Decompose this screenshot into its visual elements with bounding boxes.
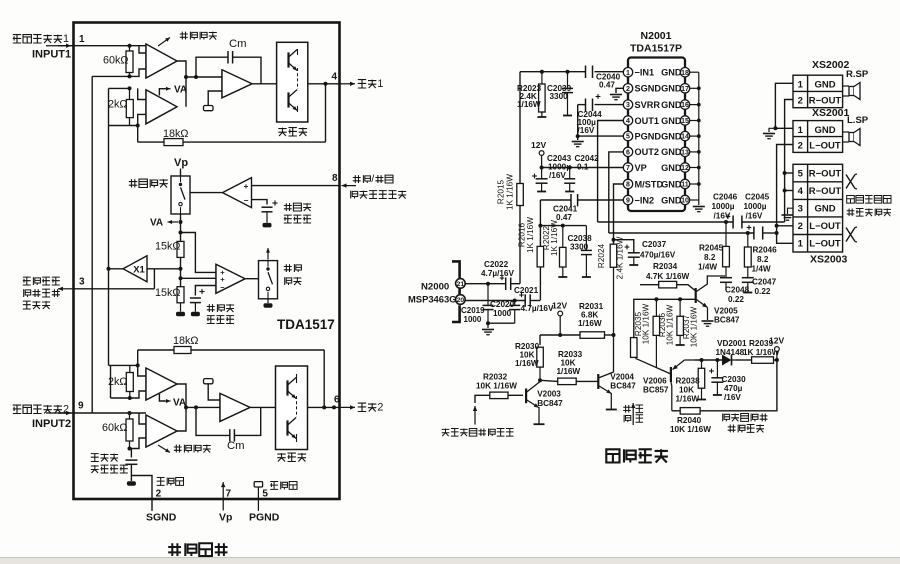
svg-text:X1: X1 [133,264,145,275]
svg-text:10K 1/16W: 10K 1/16W [666,304,675,345]
svg-text:12V: 12V [769,336,784,346]
capacitor C2020 [514,301,516,306]
svg-text:3: 3 [798,204,803,215]
wire pin9 -IN2 line [578,199,624,201]
power stage box ch2 功放级 [276,366,308,450]
label 反相输入端2 [13,405,21,413]
resistor R2032 [508,394,523,396]
label 静音控制 vertical [623,405,631,413]
pin 10 GND [680,195,689,204]
resistor R2038 [701,360,703,368]
wire XS2001 pin1 ground [775,127,793,129]
power transistor Q1 ch2 [286,380,288,395]
pin 8 external arrow [342,185,357,187]
wire pin6 OUT2 down to L-OUT line [609,152,624,233]
svg-text:R−OUT: R−OUT [809,169,842,180]
svg-text:GND: GND [661,116,682,126]
terminal 15k lower [180,303,182,312]
resistor 2k ch1 [129,88,131,125]
V2006 collector wire [670,382,673,411]
wire Vp to standby switch [180,169,182,177]
ground GND bus [693,206,705,208]
svg-text:GND: GND [661,100,682,110]
title 内部框图 [168,543,181,556]
IC N2000 partial body [452,261,460,278]
svg-text:3: 3 [626,102,630,109]
svg-text:10: 10 [681,198,689,205]
resistor R2034 [640,284,659,286]
svg-text:6: 6 [334,395,340,406]
capacitor C2039 [567,72,569,88]
svg-text:3300: 3300 [570,243,589,252]
svg-text:+: + [244,182,249,191]
node V2003 collector [538,378,542,382]
svg-text:VA: VA [174,85,187,96]
wire XS2003 pin3 ground [788,208,794,214]
svg-text:R2015: R2015 [497,179,506,204]
svg-text:1000: 1000 [493,309,512,318]
ground V2003 [534,423,545,425]
label 外接扬声器 [847,209,855,217]
resistor R2035 [631,338,638,358]
svg-text:9: 9 [626,198,630,205]
svg-text:−: − [244,196,249,205]
svg-text:GND: GND [661,68,682,78]
svg-text:V2006: V2006 [643,377,667,386]
svg-text:15kΩ: 15kΩ [155,240,180,252]
mute switch arrow ch1 [158,38,170,47]
wire bias bus horizontal [540,225,586,227]
svg-text:R2045: R2045 [699,244,724,253]
node C2030 top [715,358,719,362]
capacitor C2037 [614,240,634,253]
wire XS2003 pin4 stub [785,190,793,192]
wire R2015 input chain vertical [519,72,521,184]
svg-text:−: − [220,283,225,292]
capacitor C2022 [505,278,507,291]
resistor R2016 [537,246,544,267]
svg-text:60kΩ: 60kΩ [103,54,128,66]
label 待机开关 [129,179,137,187]
svg-text:N2000: N2000 [421,282,449,293]
op-amp A1 ch2 (VA) [146,368,177,400]
svg-text:18kΩ: 18kΩ [173,335,198,347]
capacitor Cm ch2 [196,407,230,435]
mute switch box 静音开关 [259,261,278,299]
svg-text:R2046: R2046 [753,246,778,255]
svg-text:R2032: R2032 [483,373,508,382]
node pin4 feedback tap [324,82,328,86]
op-amp A2 ch2 (mute) [146,415,177,447]
pin 12 GND [680,163,689,172]
wire opamp1 upper input [139,46,146,53]
remote mute input arrow [475,395,490,403]
svg-text:7: 7 [226,489,232,500]
svg-text:1: 1 [79,34,85,45]
wire SVRR cap to ground [577,105,579,140]
svg-text:7: 7 [626,165,630,172]
pin 2 SGND [623,84,632,93]
transistor V2003 [525,389,527,404]
pin 9 wire [46,412,71,414]
svg-text:−IN2: −IN2 [635,195,655,205]
pin 14 GND [680,131,689,140]
mute switch arrow ch2 [158,445,170,453]
resistor R2030 [537,347,544,367]
svg-text:1: 1 [626,70,630,77]
svg-text:INPUT2: INPUT2 [32,418,71,430]
svg-text:R2038: R2038 [676,377,701,386]
compensation terminal ch2 [204,379,214,384]
svg-text:1K 1/16W: 1K 1/16W [550,220,559,256]
wire driver to power stage ch2 [250,406,276,408]
svg-text:XS2003: XS2003 [810,254,848,266]
label 静音/待机 [353,175,361,183]
svg-text:C2021: C2021 [514,286,539,295]
svg-text:GND: GND [814,204,835,215]
svg-text:2: 2 [63,403,69,415]
svg-text:3: 3 [79,277,85,288]
terminal mute ref [191,312,200,317]
svg-text:10K 1/16W: 10K 1/16W [690,306,699,347]
svg-text:1: 1 [798,80,804,91]
svg-text:L−OUT: L−OUT [809,141,841,152]
svg-text:5: 5 [626,134,630,141]
svg-text:4: 4 [798,186,804,197]
wire pin1 input line [520,71,586,73]
VA arrow ch1 [159,89,165,96]
wire driver out to power stage ch1 [252,83,277,85]
op-amp A2 ch1 (VA) [146,90,177,124]
resistor R2045 [725,222,727,246]
svg-text:SGND: SGND [146,512,177,524]
standby switch box 待机开关 [171,176,190,214]
label 耳机插板及 [847,196,855,204]
capacitor C2046 [732,216,734,229]
node R2023 [540,70,544,74]
svg-text:L−OUT: L−OUT [809,221,841,232]
svg-text:5: 5 [262,489,268,500]
svg-text:BC847: BC847 [537,399,563,408]
svg-text:V2004: V2004 [610,373,634,382]
svg-text:1/4W: 1/4W [752,265,771,274]
node 12V rail [558,333,562,337]
pin 17 GND [680,84,689,93]
label 输入端参考电压 [91,454,99,462]
wire input node to 60k [128,44,132,48]
svg-text:BC857: BC857 [643,386,669,395]
svg-text:R2034: R2034 [653,262,678,271]
svg-text:1: 1 [63,33,69,45]
svg-text:BC847: BC847 [714,316,740,325]
svg-text:TDA1517P: TDA1517P [630,43,682,55]
ground V2004 [606,409,617,411]
svg-text:VP: VP [635,163,647,173]
svg-text:C2022: C2022 [484,260,509,269]
wire pin21 audio R [465,283,506,285]
svg-text:C2037: C2037 [642,240,667,249]
svg-text:SVRR: SVRR [635,100,661,110]
wire R2031 rail [540,334,580,336]
power transistor Q2 ch1 [287,92,289,107]
wire XS2001 pin2 L-OUT riser [777,145,793,244]
label 静音开关 ch1 [180,32,188,40]
svg-text:GND: GND [661,195,682,205]
label 功放级 ch2 [277,453,285,461]
capacitor C2048 [725,267,727,278]
svg-text:18: 18 [681,70,689,77]
node 60k ch2 bottom [128,447,132,451]
svg-text:3300: 3300 [550,92,569,101]
mute switch arrow up [267,248,269,260]
svg-text:2kΩ: 2kΩ [108,376,127,388]
pin 8 M/STD [623,179,632,188]
standby reference cap wire [252,200,268,205]
wire R2030 branch [539,335,541,345]
svg-text:R−OUT: R−OUT [809,96,842,107]
svg-text:L−OUT: L−OUT [809,239,841,250]
node C2019 tap [486,282,490,286]
wire R2040 to 12V riser [700,360,777,411]
wire C2019/C2020 ground bus [488,322,515,324]
node C2039 [566,70,570,74]
input reference cap ch2 [130,449,132,458]
capacitor standby reference [262,206,273,208]
pin 11 GND [680,179,689,188]
wire pin20 audio L [465,300,525,302]
wire L-OUT line [609,232,754,234]
resistor R2023 [541,72,543,114]
svg-text:10K: 10K [679,386,694,395]
pin 6 OUT2 [623,147,632,156]
svg-text:/16V: /16V [724,393,741,402]
resistor R2046 [747,233,749,247]
svg-text:Cm: Cm [227,440,245,452]
label 输出2 [358,403,366,411]
capacitor C2044 [585,99,587,112]
svg-text:5: 5 [798,169,804,180]
svg-text:C2019: C2019 [461,306,485,315]
wire opamp2 inputs ch1 [138,88,146,99]
wire R-OUT line [598,221,734,223]
svg-text:M/STD: M/STD [635,179,664,189]
wire opamp inputs ch2b [139,413,146,424]
node Cm tap ch1 [194,75,198,79]
wire VA branch to mute amp input [181,233,217,273]
node X1 output [107,267,111,271]
node Cm tap ch2 [194,405,198,409]
resistor R2033 [540,380,558,381]
pin 15 GND [680,116,689,125]
svg-text:GND: GND [814,125,835,136]
svg-text:60kΩ: 60kΩ [102,422,127,434]
wire pin3 SVRR [578,104,586,106]
wire 15k to X1 node [180,257,182,286]
node C2037 tee [612,238,616,242]
node 2k top ch1 [128,86,132,90]
node bias bus [538,224,542,228]
transistor V2004 [597,374,599,389]
node opamp outputs ch2 [184,405,188,409]
svg-text:R.SP: R.SP [846,69,869,80]
svg-text:1K 1/16W: 1K 1/16W [526,217,535,253]
driver amp ch1 [222,70,252,98]
wire XS2003 pin2 stub [777,225,793,227]
svg-text:15: 15 [681,118,689,125]
svg-text:12: 12 [681,165,689,172]
wire mute rail VD2001 [694,359,722,361]
label 开关机自动静音电路 [723,414,730,422]
svg-text:MSP3463G: MSP3463G [408,294,456,305]
svg-text:/16V: /16V [578,126,595,135]
wire mute amp + input [181,277,217,279]
capacitor Cm ch1 [196,57,228,77]
svg-text:16: 16 [681,102,689,109]
op-amp A1 ch1 [146,44,177,78]
pin 7 VP [623,163,632,172]
connector XS2002 [793,75,843,108]
svg-text:GND: GND [661,84,682,94]
svg-text:PGND: PGND [635,131,662,141]
diode VD2001 [722,355,732,366]
svg-text:/16V: /16V [746,212,763,221]
svg-text:Vp: Vp [219,512,232,524]
wire left vertical bus (input1 feedback) [91,76,93,413]
label 反相输入端1 [13,35,21,43]
svg-text:21: 21 [457,281,465,288]
svg-text:OUT1: OUT1 [635,116,660,126]
svg-text:8: 8 [626,182,630,189]
svg-text:INPUT1: INPUT1 [32,49,71,61]
pin 9 −IN2 [623,195,632,204]
pin 18 GND [680,68,689,77]
label 功放级 ch1 [278,128,286,136]
resistor R2039 [752,357,774,364]
node C2042 [568,166,572,170]
VA arrow ch2 [159,394,165,401]
node M/STD rail [612,333,616,337]
label 待机参考电压 [284,203,292,211]
speaker L.SP [849,133,854,142]
compensation terminal ch1 [204,106,214,111]
capacitor C2040 [585,66,587,79]
pin 5 power ground terminal [254,482,262,487]
svg-text:15kΩ: 15kΩ [155,287,180,299]
buffer X1 [123,256,147,282]
svg-text:1/16W: 1/16W [515,359,539,368]
svg-text:/16V: /16V [714,212,731,221]
svg-text:4: 4 [332,72,338,83]
wire GND bus [698,72,700,205]
svg-text:GND: GND [661,131,682,141]
wire standby switch to comparator [190,192,223,194]
pin 3 external arrow [58,288,74,290]
wire input node line to middle amp ch1 [186,76,222,78]
wire 60k bottom to left bus [92,75,129,77]
svg-text:R−OUT: R−OUT [809,186,842,197]
resistor R2036 [655,299,657,316]
label 电源电压纹波滤波输出端 [23,277,31,285]
svg-text:8.2: 8.2 [757,255,769,264]
node VA branch [179,231,183,235]
svg-text:8.2: 8.2 [704,253,716,262]
svg-text:12V: 12V [552,301,567,311]
wire 60k bottom to opamp1 lower input [130,69,147,76]
label 静音参考电压 [207,304,215,312]
node C2020 tap [513,299,517,303]
svg-text:XS2001: XS2001 [812,107,850,119]
svg-text:2: 2 [798,96,803,107]
svg-text:13: 13 [681,150,689,157]
svg-text:VD2001: VD2001 [717,339,747,348]
svg-text:4.7µ/16V: 4.7µ/16V [521,304,554,313]
svg-text:VA: VA [150,218,163,229]
label 信号地 [157,478,165,486]
node 2k top ch2 [136,363,140,367]
wire pin5 PGND [578,135,624,137]
VA arrow node [179,220,183,224]
svg-text:N2001: N2001 [641,30,672,42]
wire X1 output line [109,268,148,270]
capacitor C2047 [747,267,749,278]
pin 1 input wire [46,45,71,47]
node 12V mute rail [775,358,779,362]
resistor 18k ch2 feedback [138,349,325,351]
wire pin 8 control input [252,185,340,187]
ground speaker return [769,128,775,132]
wire pin4 OUT1 down to R-OUT line [598,121,624,223]
wire opamp inputs ch2a [138,365,146,376]
svg-text:17: 17 [681,86,689,93]
wire pin7 VP [542,167,624,169]
wire XS2002 pin2 R-OUT riser [785,100,793,223]
label 开关控制输入 [351,191,358,199]
mute amp [216,264,245,293]
svg-text:4: 4 [626,118,630,125]
wire XS2003 pin5 stub [785,172,793,174]
pin 7 Vp arrow [222,482,224,510]
pin 5 PGND [623,131,632,140]
resistor 15k upper [177,241,184,257]
svg-text:470µ: 470µ [724,384,743,393]
svg-text:TDA1517: TDA1517 [277,317,335,332]
label 输出1 [358,80,366,88]
node VP 12V [540,166,544,170]
driver amp ch2 [220,393,250,421]
svg-text:OUT2: OUT2 [635,147,660,157]
svg-text:V2003: V2003 [537,390,561,399]
wire pin8 M/STD down [614,184,624,240]
wire to driver ch2 [186,406,220,408]
svg-text:470µ/16V: 470µ/16V [640,251,676,260]
capacitor C2038 [585,226,587,250]
svg-text:PGND: PGND [249,512,280,524]
svg-text:C2020: C2020 [490,300,515,309]
wire VA bus vertical [108,88,110,365]
wire R2016 chain vertical [539,200,541,246]
label 静音开关 ch2 [174,445,182,453]
svg-text:XS2002: XS2002 [812,59,850,71]
svg-text:1K 1/16W: 1K 1/16W [506,174,515,210]
resistor 60k ch1 [129,46,131,77]
IC TDA1517 internal block outer frame [74,23,340,500]
node R2037 top [678,297,682,301]
pin 16 GND [680,100,689,109]
svg-text:C2047: C2047 [752,278,777,287]
svg-text:C2046: C2046 [713,193,738,202]
headphone jack lower [846,228,855,242]
svg-text:10K 1/16W: 10K 1/16W [642,303,651,344]
